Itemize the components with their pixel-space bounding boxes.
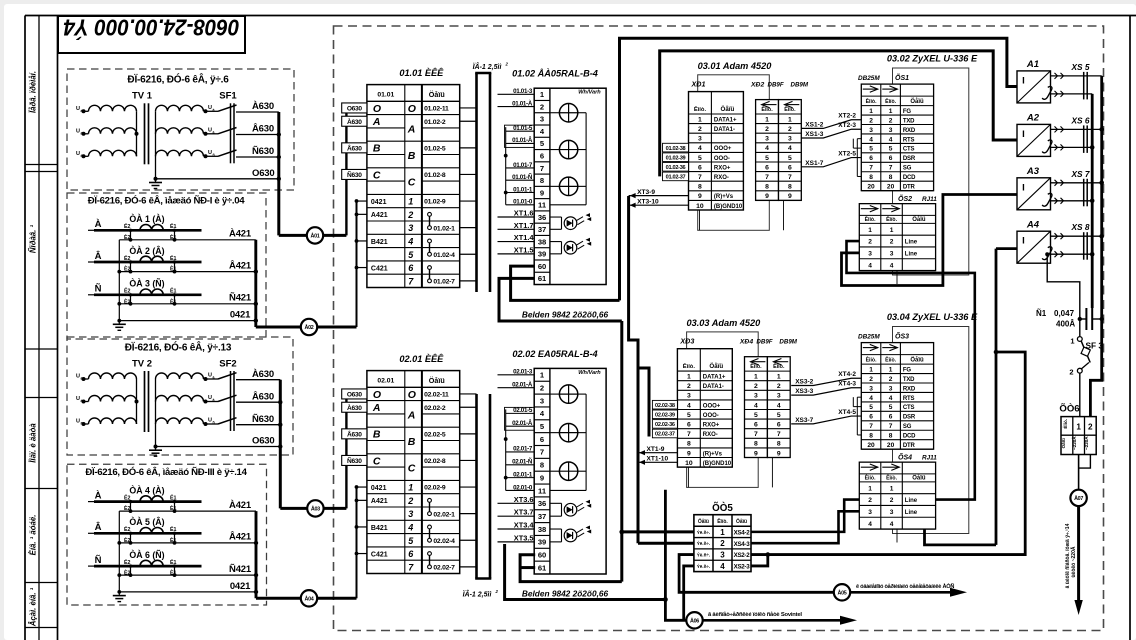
- svg-text:Å04: Å04: [305, 595, 314, 602]
- svg-text:8: 8: [754, 441, 758, 448]
- svg-text:Öåïü: Öåïü: [912, 216, 926, 223]
- svg-text:02.02-39: 02.02-39: [655, 413, 675, 419]
- TV 1 primary winding à: [82, 109, 86, 113]
- wire Î630 from TV 2 neutral: [156, 446, 281, 448]
- svg-text:Å01: Å01: [311, 233, 320, 240]
- svg-text:Â630: Â630: [347, 143, 362, 152]
- frame right border: [1129, 16, 1131, 640]
- svg-text:9: 9: [687, 450, 691, 457]
- svg-text:1: 1: [868, 227, 872, 234]
- svg-text:XT2-5: XT2-5: [838, 150, 856, 157]
- svg-text:7: 7: [540, 448, 544, 457]
- wire 630V feeder vertical: [345, 103, 347, 235]
- TV 2 secondary star point wire: [155, 379, 157, 447]
- svg-text:02.02-38: 02.02-38: [655, 403, 675, 409]
- wire XT5 row1 left (from feeder pin61 rail): [622, 530, 694, 533]
- main dashed enclosure: [334, 26, 1104, 631]
- svg-text:Â630: Â630: [347, 429, 362, 438]
- svg-text:XS 7: XS 7: [1071, 169, 1090, 179]
- svg-text:Ñ421: Ñ421: [229, 293, 252, 304]
- svg-text:DTR: DTR: [903, 443, 916, 449]
- wire À630 from SF2: [236, 379, 280, 381]
- svg-text:2: 2: [868, 497, 872, 504]
- svg-text:ÕS3: ÕS3: [895, 332, 909, 341]
- svg-text:02.01-1: 02.01-1: [513, 471, 533, 478]
- incoming wires 03.04 ZyXEL U-336 E: [791, 378, 861, 385]
- wire stub row 11: [357, 240, 367, 242]
- wire 0421: [119, 591, 256, 593]
- svg-text:10: 10: [685, 460, 693, 467]
- wire XT6 outputs to node E07: [1079, 455, 1091, 469]
- svg-text:XT4-2: XT4-2: [838, 371, 856, 378]
- svg-text:O630: O630: [347, 392, 363, 399]
- wire stubs XT3-9 XT3-10: [629, 195, 689, 197]
- TV 1 primary winding â: [82, 132, 86, 136]
- svg-text:01.01-À: 01.01-À: [512, 100, 533, 107]
- svg-text:À630: À630: [347, 117, 362, 126]
- svg-text:RXD: RXD: [903, 128, 916, 134]
- svg-text:0,047: 0,047: [1054, 309, 1075, 318]
- svg-text:1: 1: [687, 374, 691, 381]
- wire feeder V-B (XT3 bus): [629, 196, 638, 543]
- svg-text:3: 3: [890, 509, 894, 516]
- table ÕS2 frame: [859, 204, 935, 271]
- svg-text:Öåïü: Öåïü: [429, 376, 445, 385]
- svg-text:A: A: [372, 116, 381, 128]
- wire Â421 secondary: [119, 542, 256, 544]
- wire OS4 return loop: [925, 530, 997, 545]
- frame inner border: [57, 16, 59, 640]
- wire chevrons A1: [1055, 73, 1058, 79]
- svg-text:CTS: CTS: [903, 147, 915, 153]
- TV 2 core: [144, 371, 146, 432]
- svg-text:O: O: [408, 103, 416, 115]
- svg-text:ÐÏ-6216, ÐÓ-6 êÂ, ÿ÷.6: ÐÏ-6216, ÐÓ-6 êÂ, ÿ÷.6: [127, 73, 229, 86]
- svg-text:ùèòêó ~220Â: ùèòêó ~220Â: [1070, 546, 1077, 577]
- bus XS bottoms to capacitor: [1091, 94, 1094, 308]
- svg-text:8: 8: [540, 461, 544, 470]
- svg-text:À421: À421: [229, 500, 252, 511]
- svg-text:A: A: [372, 402, 381, 414]
- wire meter 02.02 aux output to E06 feeder: [505, 544, 666, 600]
- svg-text:2: 2: [540, 102, 544, 111]
- svg-text:Êîíò.: Êîíò.: [683, 362, 696, 370]
- thin link ÕS2 to device outline: [896, 271, 898, 285]
- wire A2 output top: [1051, 128, 1102, 130]
- svg-text:Wh/Varh: Wh/Varh: [578, 370, 601, 376]
- cable PV-1 run lower: [475, 394, 478, 579]
- input tags 01.02-38..37: [663, 143, 689, 152]
- svg-text:Line: Line: [905, 510, 918, 516]
- svg-text:À630: À630: [252, 101, 274, 112]
- svg-text:01.02-1: 01.02-1: [433, 225, 455, 232]
- svg-text:B: B: [408, 436, 416, 448]
- svg-text:DTR: DTR: [903, 185, 916, 191]
- svg-text:Å05: Å05: [838, 589, 847, 596]
- svg-text:DB9F: DB9F: [768, 82, 784, 89]
- svg-text:02.01-0: 02.01-0: [513, 484, 533, 491]
- table 01.01 pin jumpers: [428, 212, 432, 216]
- svg-text:Êîíò.: Êîíò.: [773, 362, 785, 370]
- svg-text:Öåïü: Öåïü: [910, 357, 924, 364]
- svg-text:03.04 ZyXEL U-336 E: 03.04 ZyXEL U-336 E: [887, 312, 978, 322]
- wire A3 output top: [1051, 182, 1102, 184]
- svg-text:(R)+Vs: (R)+Vs: [703, 451, 723, 457]
- svg-text:ÕS2: ÕS2: [898, 194, 912, 203]
- table 02.01 row lines: [367, 400, 405, 402]
- svg-text:OOO-: OOO-: [703, 413, 719, 419]
- wire feeder 03.03 tags: [638, 368, 649, 437]
- svg-text:8: 8: [788, 184, 792, 191]
- svg-text:SF1: SF1: [219, 91, 237, 102]
- wire À421 secondary: [119, 239, 256, 241]
- svg-text:RXO+: RXO+: [714, 165, 731, 171]
- svg-text:Ýë.ñ÷.: Ýë.ñ÷.: [697, 552, 711, 558]
- svg-text:Â630: Â630: [252, 123, 274, 135]
- device link line 03.03 Adam 4520: [687, 467, 689, 487]
- wire XT5 row3 left to node E05: [679, 555, 833, 593]
- svg-text:FG: FG: [903, 367, 911, 373]
- svg-text:B421: B421: [371, 525, 388, 532]
- svg-text:Êîíò.: Êîíò.: [866, 97, 878, 105]
- wire chevrons A3: [1055, 180, 1058, 186]
- table 02.01 stubs to cable: [460, 393, 477, 395]
- meter outline: [534, 368, 606, 574]
- svg-text:Êîíò.: Êîíò.: [694, 105, 707, 113]
- svg-text:ÐÏ-6216, ÐÓ-6 êÂ, ìåæäó ÑÐ-I è: ÐÏ-6216, ÐÓ-6 êÂ, ìåæäó ÑÐ-I è ÿ÷.04: [88, 195, 246, 207]
- svg-text:XT1.5: XT1.5: [514, 245, 534, 254]
- svg-text:2: 2: [765, 126, 769, 133]
- svg-text:8: 8: [687, 441, 691, 448]
- svg-text:8: 8: [540, 176, 544, 185]
- svg-text:8: 8: [869, 433, 873, 440]
- svg-text:3: 3: [540, 115, 544, 124]
- svg-text:XT3.5: XT3.5: [514, 533, 534, 542]
- cell enclosure TV 2: [67, 337, 293, 455]
- TV 2 primary winding à: [82, 377, 86, 381]
- svg-text:XT1-10: XT1-10: [647, 456, 669, 463]
- terminal strip XT5 table: [694, 515, 751, 572]
- svg-text:ÒÀ 6 (Ñ): ÒÀ 6 (Ñ): [129, 549, 164, 560]
- TV 1 primary star link: [136, 111, 138, 156]
- TV 1 core: [144, 103, 146, 164]
- svg-text:1: 1: [720, 528, 725, 537]
- connector gender arrows XÐ2: [762, 101, 770, 107]
- title block box: [58, 16, 245, 53]
- input tags 02.02-38..37: [652, 400, 677, 409]
- meter power wire pin60: [511, 266, 620, 300]
- svg-text:U: U: [76, 419, 80, 425]
- svg-text:3: 3: [868, 250, 872, 257]
- svg-text:01.01-5: 01.01-5: [513, 125, 533, 132]
- wire A4 output top: [1051, 235, 1102, 237]
- svg-text:DATA1+: DATA1+: [703, 375, 726, 381]
- cable PV-1 run upper: [475, 73, 478, 292]
- svg-text:02.01-3: 02.01-3: [513, 369, 533, 376]
- wire capacitor junction to breaker SF3: [1078, 317, 1082, 321]
- svg-text:RXD: RXD: [903, 386, 916, 392]
- svg-text:OOO+: OOO+: [703, 403, 721, 409]
- svg-text:XS2-2: XS2-2: [734, 552, 751, 559]
- svg-text:I: I: [1022, 129, 1025, 140]
- svg-text:01.02-8: 01.02-8: [424, 172, 446, 179]
- svg-text:01.01: 01.01: [377, 92, 394, 99]
- connector gender arrows ÕS2: [870, 205, 878, 211]
- svg-text:20: 20: [887, 184, 895, 191]
- svg-text:Å03: Å03: [311, 506, 320, 513]
- net tag À630: [342, 402, 367, 412]
- svg-text:9: 9: [777, 450, 781, 457]
- svg-text:6: 6: [788, 164, 792, 171]
- wire E07 to 220V feeder with arrow: [1077, 506, 1080, 601]
- meter pin cells: [534, 99, 550, 101]
- svg-text:DSR: DSR: [903, 156, 916, 162]
- svg-text:Öåïü: Öåïü: [429, 90, 445, 99]
- svg-text:A4: A4: [1026, 219, 1040, 230]
- TV 1 secondary winding à: [156, 105, 204, 111]
- svg-text:ÏÂ-1 2,5ìì: ÏÂ-1 2,5ìì: [473, 62, 502, 71]
- svg-text:XS3-2: XS3-2: [795, 379, 813, 386]
- svg-text:DATA1-: DATA1-: [714, 127, 735, 133]
- TV 2 secondary winding â: [156, 396, 204, 402]
- svg-text:B: B: [373, 429, 381, 441]
- wire bus to E03: [280, 507, 307, 510]
- svg-text:02.02-5: 02.02-5: [424, 431, 446, 438]
- svg-text:11: 11: [538, 486, 547, 495]
- meter element collector: [585, 394, 587, 490]
- meter LED outputs: [550, 502, 562, 504]
- svg-text:1: 1: [869, 108, 873, 115]
- svg-text:Ñ421: Ñ421: [229, 564, 252, 575]
- cell enclosure TV 1: [67, 69, 294, 190]
- svg-text:1: 1: [890, 227, 894, 234]
- svg-text:A421: A421: [371, 212, 388, 219]
- wire to node E06: [665, 490, 686, 621]
- svg-text:U: U: [76, 396, 80, 402]
- svg-text:1: 1: [698, 116, 702, 123]
- svg-text:4: 4: [788, 145, 792, 152]
- svg-text:ÒÀ 5 (Â): ÒÀ 5 (Â): [129, 516, 164, 527]
- TV 2 primary star link: [136, 379, 138, 424]
- svg-text:01.02-36: 01.02-36: [666, 165, 686, 171]
- svg-text:DCD: DCD: [903, 434, 916, 440]
- meter power wire pin61: [499, 278, 622, 321]
- net tag Â630: [342, 429, 367, 439]
- svg-text:U: U: [208, 373, 212, 379]
- svg-text:SF 3: SF 3: [1086, 341, 1104, 351]
- connector gender arrows ÕS4: [870, 464, 878, 470]
- svg-text:XS 6: XS 6: [1071, 115, 1090, 125]
- svg-text:3: 3: [698, 136, 702, 143]
- svg-text:U: U: [208, 395, 212, 401]
- table XÐ3 frame: [677, 349, 732, 467]
- svg-text:01.01-Ñ: 01.01-Ñ: [512, 174, 533, 181]
- svg-text:3: 3: [754, 393, 758, 400]
- CT output bus: [255, 511, 258, 598]
- svg-text:9: 9: [540, 188, 544, 197]
- svg-text:01.01-0: 01.01-0: [513, 199, 533, 206]
- meter input wires: [498, 93, 535, 95]
- svg-text:ÕÒ6: ÕÒ6: [1059, 403, 1079, 415]
- svg-text:O630: O630: [347, 106, 363, 113]
- ÒÀ 1 (À) secondary taps: [130, 230, 132, 240]
- svg-text:Ñ: Ñ: [95, 555, 102, 566]
- svg-text:1: 1: [408, 197, 413, 207]
- svg-text:XS2-3: XS2-3: [734, 564, 751, 571]
- svg-text:TXD: TXD: [903, 377, 915, 383]
- svg-text:FG: FG: [903, 109, 911, 115]
- svg-text:ÕÒ5: ÕÒ5: [712, 502, 733, 514]
- svg-text:XT3.4: XT3.4: [514, 521, 535, 530]
- svg-text:XT3-9: XT3-9: [637, 189, 655, 196]
- svg-text:4: 4: [890, 262, 894, 269]
- ÒÀ 3 (Ñ) secondary taps: [130, 295, 132, 304]
- table 02.01 pin jumpers: [428, 498, 432, 502]
- svg-text:à: à: [81, 109, 83, 113]
- wire A4 output bottom: [1051, 253, 1093, 255]
- ground symbol at TV 2 secondary: [155, 447, 157, 451]
- svg-text:3: 3: [765, 136, 769, 143]
- svg-text:Ñ1: Ñ1: [1036, 309, 1047, 318]
- wire Ñ630 from SF2: [236, 424, 280, 426]
- svg-text:4: 4: [407, 236, 413, 246]
- frame left border: [24, 16, 26, 640]
- table 01.01 stubs to cable: [460, 107, 477, 109]
- svg-text:XT1.6: XT1.6: [514, 209, 534, 218]
- svg-text:2: 2: [698, 126, 702, 133]
- svg-text:4: 4: [869, 395, 873, 402]
- svg-text:61: 61: [538, 563, 547, 572]
- meter LED outputs: [550, 216, 562, 218]
- svg-text:2: 2: [720, 539, 725, 548]
- svg-text:~220Â: ~220Â: [1071, 436, 1077, 450]
- svg-text:U: U: [208, 105, 212, 111]
- svg-text:RXO-: RXO-: [703, 432, 718, 438]
- svg-text:O: O: [408, 389, 416, 401]
- wire 421 current feeder vertical: [356, 487, 358, 598]
- CT output bus: [254, 240, 257, 327]
- svg-text:ÐÏ-6216, ÐÓ-6 êÂ, ìåæäó ÑÐ-III: ÐÏ-6216, ÐÓ-6 êÂ, ìåæäó ÑÐ-III è ÿ÷.14: [85, 466, 247, 478]
- node E01: [307, 227, 323, 243]
- converter A2: [1017, 124, 1051, 156]
- svg-text:02.01 ÈÊÊ: 02.01 ÈÊÊ: [399, 353, 444, 364]
- device outline 03.04 ZyXEL U-336 E: [893, 327, 969, 534]
- svg-text:3: 3: [788, 136, 792, 143]
- svg-text:RJ11: RJ11: [922, 455, 937, 462]
- svg-text:O: O: [373, 389, 381, 401]
- svg-text:3: 3: [408, 509, 413, 519]
- converter A3: [1017, 178, 1051, 210]
- wire 0421: [119, 320, 256, 322]
- net tag O630: [342, 103, 367, 113]
- svg-text:3: 3: [890, 250, 894, 257]
- net tag Ñ630: [342, 169, 367, 179]
- svg-text:6: 6: [777, 422, 781, 429]
- node E05: [834, 584, 850, 600]
- svg-text:ÒÀ 4 (À): ÒÀ 4 (À): [129, 484, 164, 495]
- wire stub row 8: [357, 486, 367, 488]
- svg-text:9: 9: [540, 473, 544, 482]
- capacitor C1: [1080, 318, 1087, 320]
- wire CT-I bus to E02: [256, 326, 301, 329]
- svg-text:U: U: [208, 127, 212, 133]
- svg-text:0421: 0421: [371, 485, 387, 492]
- cell enclosure CT group: [67, 464, 267, 605]
- svg-text:Belden 9842 2õ2õ0,66: Belden 9842 2õ2õ0,66: [522, 589, 609, 599]
- svg-text:XS4-2: XS4-2: [734, 529, 751, 536]
- svg-text:Öåïü: Öåïü: [910, 98, 924, 105]
- svg-text:Âçàì. èíâ. ¹: Âçàì. èíâ. ¹: [29, 587, 38, 627]
- svg-text:Êîíò.: Êîíò.: [1061, 419, 1068, 429]
- svg-text:B421: B421: [371, 239, 388, 246]
- svg-text:2: 2: [868, 239, 872, 246]
- svg-text:3: 3: [720, 551, 725, 560]
- wire Ñ421 secondary: [119, 574, 256, 576]
- svg-text:2: 2: [754, 383, 758, 390]
- svg-text:02.02-11: 02.02-11: [424, 392, 449, 399]
- svg-text:8: 8: [777, 441, 781, 448]
- svg-text:Å06: Å06: [690, 617, 699, 624]
- svg-text:6: 6: [765, 164, 769, 171]
- wire Â630 from SF2: [236, 401, 280, 403]
- breaker SF2 poles: [230, 371, 232, 431]
- svg-text:XÐ4: XÐ4: [739, 339, 753, 346]
- svg-text:XS1-3: XS1-3: [805, 131, 823, 138]
- svg-text:XS4-3: XS4-3: [734, 541, 751, 548]
- table XÐ4 frames: [745, 357, 768, 458]
- svg-text:5: 5: [765, 155, 769, 162]
- svg-text:Ïåðâ. ïðèìåí.: Ïåðâ. ïðèìåí.: [29, 71, 38, 113]
- svg-text:4: 4: [777, 402, 781, 409]
- svg-text:01.02-5: 01.02-5: [424, 145, 446, 152]
- svg-text:OOO-: OOO-: [714, 156, 730, 162]
- svg-text:DATA1-: DATA1-: [703, 384, 724, 390]
- svg-text:C: C: [408, 176, 416, 188]
- node E06: [686, 612, 702, 628]
- svg-text:(R)+Vs: (R)+Vs: [714, 194, 734, 200]
- svg-text:02.02-7: 02.02-7: [433, 564, 455, 571]
- svg-text:I: I: [1022, 236, 1025, 247]
- meter outline: [534, 88, 606, 284]
- svg-text:ÏÂ-1 2,5ìì: ÏÂ-1 2,5ìì: [463, 590, 492, 599]
- svg-text:Ñ630: Ñ630: [347, 170, 362, 179]
- svg-text:TXD: TXD: [903, 118, 915, 124]
- wire E01 to 01.01 feed: [323, 234, 346, 237]
- svg-text:0421: 0421: [230, 310, 251, 321]
- svg-text:ÐÏ-6216, ÐÓ-6 êÂ, ÿ÷.13: ÐÏ-6216, ÐÓ-6 êÂ, ÿ÷.13: [125, 341, 232, 354]
- svg-text:10: 10: [696, 203, 704, 210]
- svg-text:39: 39: [538, 538, 546, 547]
- svg-text:2: 2: [889, 376, 893, 383]
- svg-text:XT3.7: XT3.7: [514, 508, 534, 517]
- phone line wires from OS4 to XT5 rows 1-2: [751, 500, 859, 532]
- svg-text:4: 4: [868, 262, 872, 269]
- svg-text:2: 2: [889, 117, 893, 124]
- svg-text:61: 61: [538, 274, 547, 283]
- converter A4: [1017, 231, 1051, 263]
- TV 1 secondary winding ñ: [156, 150, 204, 156]
- svg-text:03.02 ZyXEL U-336 E: 03.02 ZyXEL U-336 E: [887, 54, 978, 64]
- ÒÀ 4 (À) secondary taps: [130, 502, 132, 512]
- svg-text:DB9M: DB9M: [779, 339, 797, 346]
- wire stub row 9: [357, 499, 367, 501]
- CT common return wire: [118, 240, 120, 321]
- wire bus to E01: [279, 234, 307, 237]
- svg-text:3: 3: [687, 393, 691, 400]
- svg-text:7: 7: [869, 165, 873, 172]
- svg-text:Â630: Â630: [252, 390, 274, 402]
- table DB25M/ÕS1 frame: [861, 84, 933, 191]
